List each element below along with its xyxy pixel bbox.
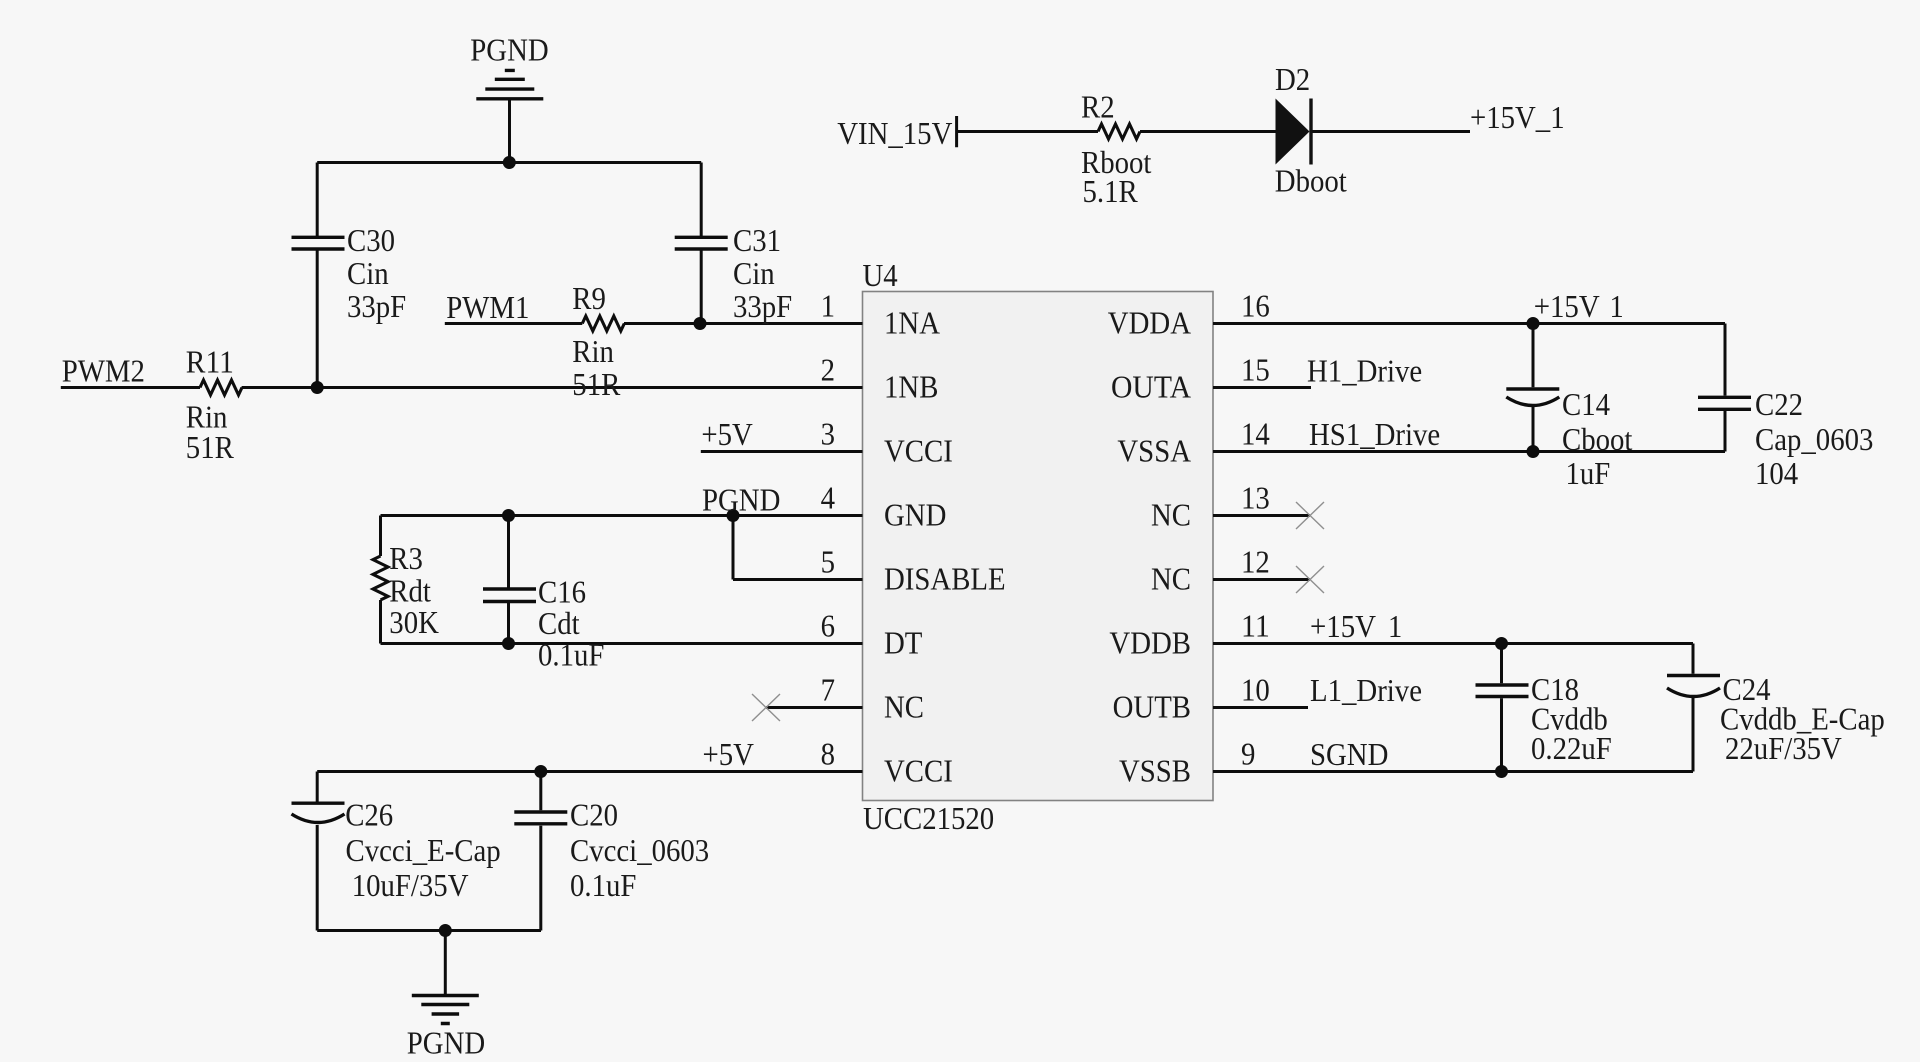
svg-text:10uF/35V: 10uF/35V <box>352 867 469 903</box>
svg-text:HS1_Drive: HS1_Drive <box>1309 416 1440 452</box>
svg-text:12: 12 <box>1241 544 1270 580</box>
svg-text:0.1uF: 0.1uF <box>570 867 636 903</box>
svg-text:+15V: +15V <box>1534 288 1600 324</box>
svg-text:VDDB: VDDB <box>1109 625 1191 661</box>
svg-text:1: 1 <box>1610 288 1624 324</box>
svg-text:Cvcci_E-Cap: Cvcci_E-Cap <box>346 832 501 868</box>
svg-text:R3: R3 <box>389 540 423 576</box>
svg-text:16: 16 <box>1241 288 1270 324</box>
svg-text:D2: D2 <box>1275 61 1310 97</box>
svg-text:13: 13 <box>1241 480 1270 516</box>
svg-text:+5V: +5V <box>703 736 754 772</box>
svg-text:OUTA: OUTA <box>1111 369 1191 405</box>
svg-text:GND: GND <box>884 497 946 533</box>
svg-text:Dboot: Dboot <box>1275 163 1347 199</box>
svg-text:Cap_0603: Cap_0603 <box>1755 421 1873 457</box>
svg-text:U4: U4 <box>863 257 898 293</box>
svg-text:2: 2 <box>821 352 835 388</box>
svg-text:33pF: 33pF <box>347 288 406 324</box>
svg-text:PGND: PGND <box>470 32 548 68</box>
svg-text:R11: R11 <box>186 344 234 380</box>
svg-text:NC: NC <box>1151 497 1191 533</box>
svg-text:C30: C30 <box>347 222 395 258</box>
svg-text:1: 1 <box>1388 608 1402 644</box>
svg-text:Rin: Rin <box>572 333 614 369</box>
svg-text:PWM1: PWM1 <box>446 289 529 325</box>
svg-text:1NA: 1NA <box>884 305 940 341</box>
svg-text:30K: 30K <box>389 604 439 640</box>
svg-text:1NB: 1NB <box>884 369 938 405</box>
svg-text:4: 4 <box>821 480 835 516</box>
svg-text:14: 14 <box>1241 416 1270 452</box>
svg-text:15: 15 <box>1241 352 1270 388</box>
svg-text:L1_Drive: L1_Drive <box>1310 672 1422 708</box>
svg-text:DISABLE: DISABLE <box>884 561 1006 597</box>
svg-text:51R: 51R <box>572 366 621 402</box>
svg-text:C31: C31 <box>733 222 781 258</box>
svg-text:DT: DT <box>884 625 923 661</box>
svg-text:10: 10 <box>1241 672 1270 708</box>
svg-text:+5V: +5V <box>701 416 752 452</box>
svg-text:OUTB: OUTB <box>1113 689 1191 725</box>
svg-text:NC: NC <box>884 689 924 725</box>
svg-text:6: 6 <box>821 608 835 644</box>
svg-text:5.1R: 5.1R <box>1083 173 1139 209</box>
svg-text:0.22uF: 0.22uF <box>1531 730 1612 766</box>
svg-text:1: 1 <box>821 288 835 324</box>
svg-text:5: 5 <box>821 544 835 580</box>
svg-text:22uF/35V: 22uF/35V <box>1725 730 1842 766</box>
svg-text:C14: C14 <box>1562 386 1610 422</box>
svg-text:+15V: +15V <box>1310 608 1376 644</box>
svg-text:11: 11 <box>1241 608 1270 644</box>
svg-text:0.1uF: 0.1uF <box>538 637 604 673</box>
svg-text:VSSB: VSSB <box>1119 753 1191 789</box>
svg-text:C20: C20 <box>570 797 618 833</box>
svg-text:9: 9 <box>1241 736 1255 772</box>
svg-text:NC: NC <box>1151 561 1191 597</box>
svg-text:Cvcci_0603: Cvcci_0603 <box>570 832 709 868</box>
svg-text:VIN_15V: VIN_15V <box>837 115 952 151</box>
svg-text:H1_Drive: H1_Drive <box>1307 353 1422 389</box>
svg-text:C22: C22 <box>1755 386 1803 422</box>
svg-text:1uF: 1uF <box>1566 455 1611 491</box>
svg-text:SGND: SGND <box>1310 736 1388 772</box>
svg-text:PGND: PGND <box>407 1025 485 1061</box>
svg-text:104: 104 <box>1755 455 1798 491</box>
svg-text:VSSA: VSSA <box>1117 433 1191 469</box>
svg-text:7: 7 <box>821 672 835 708</box>
svg-text:PGND: PGND <box>702 482 780 518</box>
svg-text:C26: C26 <box>345 797 393 833</box>
svg-text:R2: R2 <box>1081 89 1115 125</box>
svg-text:8: 8 <box>821 736 835 772</box>
svg-text:Cboot: Cboot <box>1562 421 1632 457</box>
svg-text:Cin: Cin <box>733 255 775 291</box>
svg-text:Cin: Cin <box>347 255 389 291</box>
svg-text:R9: R9 <box>572 280 606 316</box>
svg-text:VDDA: VDDA <box>1108 305 1191 341</box>
svg-text:3: 3 <box>821 416 835 452</box>
svg-text:51R: 51R <box>186 429 235 465</box>
svg-text:VCCI: VCCI <box>884 433 953 469</box>
svg-text:+15V_1: +15V_1 <box>1470 99 1565 135</box>
svg-text:PWM2: PWM2 <box>62 353 145 389</box>
svg-text:UCC21520: UCC21520 <box>863 800 994 836</box>
svg-text:33pF: 33pF <box>733 288 792 324</box>
svg-text:VCCI: VCCI <box>884 753 953 789</box>
